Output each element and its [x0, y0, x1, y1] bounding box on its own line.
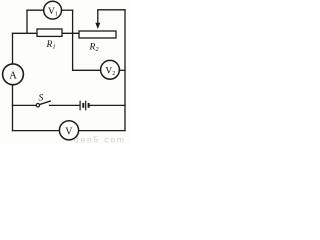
wire bottom row right: [79, 130, 126, 132]
switch S: [36, 101, 51, 107]
voltmeter V2: [101, 60, 120, 79]
voltmeter V1: [44, 1, 62, 19]
wire V1 branch top left: [27, 9, 44, 11]
wire battery row left: [13, 104, 37, 106]
svg-text:A: A: [9, 70, 17, 81]
wire slider top: [98, 9, 125, 11]
ammeter A: [3, 64, 24, 85]
wire V1 branch top right: [62, 9, 73, 11]
wire main top row left: [13, 32, 38, 34]
wire bottom row left: [13, 130, 60, 132]
svg-text:V: V: [65, 127, 73, 138]
wire V2 branch vertical: [72, 10, 74, 70]
wire left vertical (top corner to ammeter): [12, 33, 14, 64]
wire V1 branch left vertical: [26, 10, 28, 33]
voltmeter V (bottom): [59, 121, 78, 140]
wire between R1 and R2: [62, 32, 79, 34]
rheostat slider arrow: [95, 10, 100, 29]
rheostat R2: [79, 31, 116, 38]
wire left vertical (ammeter to bottom corner): [12, 85, 14, 131]
wire V2 row right: [119, 69, 125, 71]
svg-text:S: S: [39, 94, 44, 104]
wire battery row middle: [50, 104, 80, 106]
wire V2 row left: [73, 69, 101, 71]
battery: [80, 101, 89, 111]
resistor R1: [37, 29, 62, 36]
wire battery row right: [90, 104, 126, 106]
wire right vertical: [124, 10, 126, 131]
svg-text:den5 com: den5 com: [74, 135, 126, 145]
